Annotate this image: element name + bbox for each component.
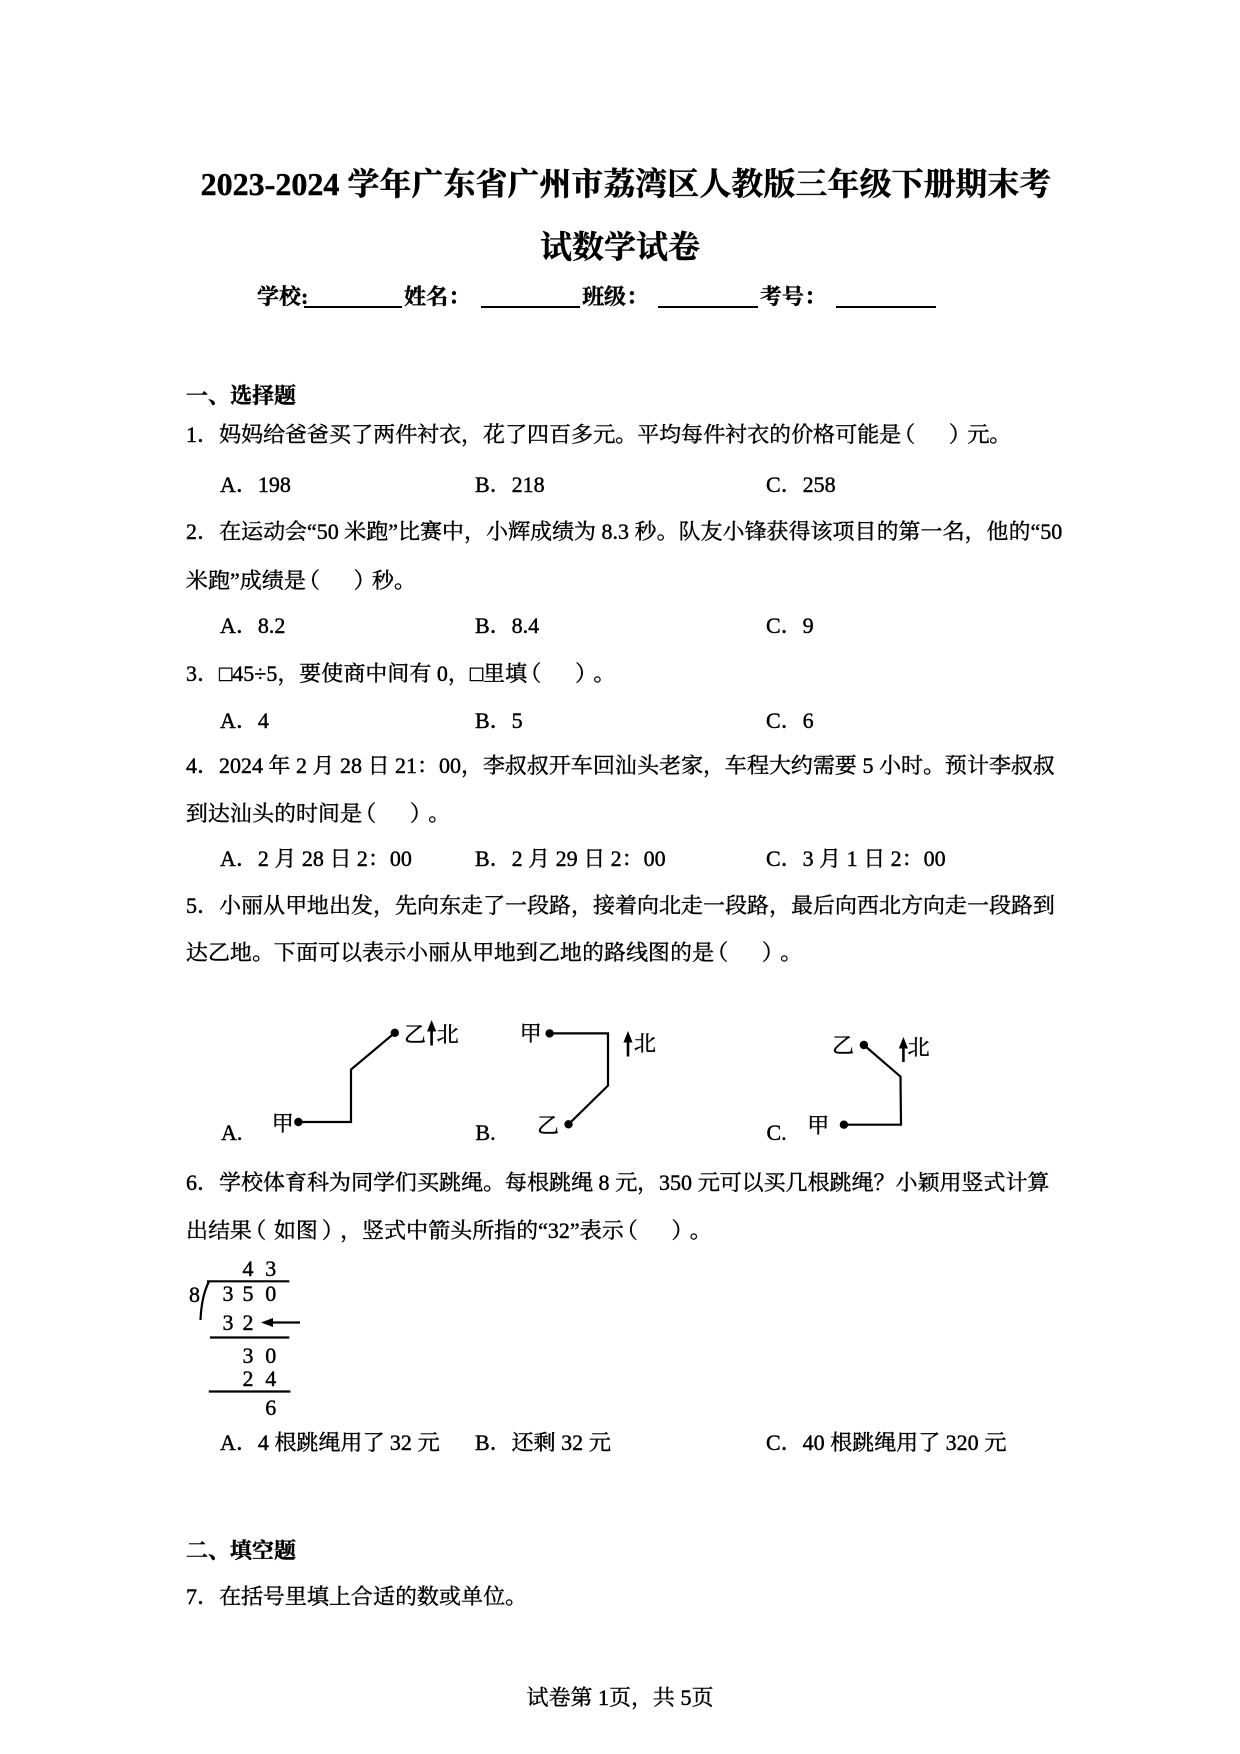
- quotient digit 3: [260, 1255, 282, 1283]
- partial product 32: [217, 1309, 239, 1337]
- route C north arrow: [902, 1047, 905, 1062]
- options 2: [0, 0, 1240, 1]
- route A path 甲→乙: [298, 1033, 395, 1122]
- question 2 line 2: [186, 558, 416, 604]
- label 乙 route B: [537, 1103, 559, 1149]
- route B dot 甲: [545, 1029, 553, 1037]
- quotient digit 4: [237, 1255, 259, 1283]
- route B path 甲→乙: [550, 1033, 608, 1124]
- route C dot 甲: [840, 1121, 848, 1129]
- question 5 line 2: [186, 930, 802, 976]
- route C dot 乙: [860, 1041, 868, 1049]
- arrow pointing at 32: [268, 1321, 300, 1323]
- route B north arrow: [627, 1041, 630, 1057]
- option letter A for diagrams: [221, 1110, 242, 1156]
- label 甲 route B: [520, 1011, 542, 1057]
- label 甲 route C: [807, 1103, 829, 1149]
- question 2 line 1: [186, 509, 1062, 555]
- question 1: [186, 412, 1011, 458]
- question 3: [186, 651, 615, 697]
- section heading 1: [186, 373, 296, 419]
- dividend 350: [217, 1280, 239, 1308]
- label 北 route B: [634, 1021, 656, 1067]
- remainder 30: [237, 1342, 259, 1370]
- question 5 line 1: [186, 883, 1055, 929]
- question 4 line 1: [186, 743, 1055, 789]
- option letter B for diagrams: [475, 1110, 495, 1156]
- final remainder 6: [260, 1394, 282, 1422]
- options 3: [0, 0, 1240, 1]
- options 4: [0, 0, 1240, 1]
- option letter C for diagrams: [767, 1110, 787, 1156]
- subtraction line 2: [209, 1390, 291, 1392]
- question 6 line 2: [186, 1208, 712, 1254]
- label 乙 route A: [404, 1012, 426, 1058]
- route B dot 乙: [564, 1120, 572, 1128]
- footer page number: [0, 1675, 1240, 1721]
- options 1: [0, 0, 1240, 1]
- section heading 2: [186, 1528, 296, 1574]
- division bracket slash: [201, 1282, 210, 1321]
- title line 1: [0, 162, 1240, 207]
- question 4 line 2: [186, 791, 450, 837]
- label 乙 route C: [832, 1023, 854, 1069]
- divisor 8: [184, 1281, 206, 1309]
- route A dot 甲: [294, 1118, 302, 1126]
- label 甲 route A: [272, 1101, 294, 1147]
- options 6: [0, 0, 1240, 1]
- question 6 line 1: [186, 1160, 1050, 1206]
- label 北 route A: [437, 1012, 459, 1058]
- route C path 乙→甲: [844, 1045, 901, 1125]
- division vinculum: [207, 1280, 289, 1282]
- question 7: [186, 1574, 527, 1620]
- route A north arrow: [430, 1030, 433, 1046]
- partial product 24: [237, 1365, 259, 1393]
- info blanks row: [257, 283, 308, 311]
- label 北 route C: [908, 1025, 930, 1071]
- route A dot 乙: [391, 1029, 399, 1037]
- subtraction line 1: [210, 1336, 289, 1338]
- title line 2: [0, 225, 1240, 270]
